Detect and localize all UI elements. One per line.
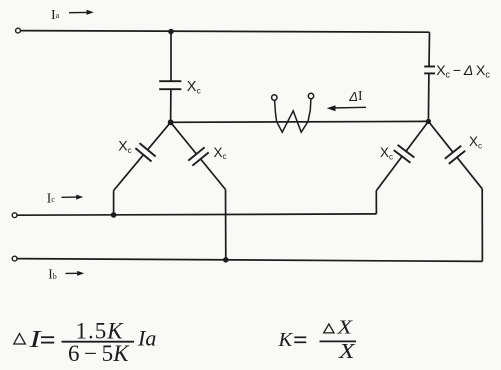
svg-text:6 − 5K: 6 − 5K [68,341,130,366]
arrow Ic [62,196,80,198]
wire: detector right lead [308,99,311,122]
node: junction on phase-b line [223,257,229,263]
fraction bar [62,341,135,343]
terminal: phase-a input [16,28,21,33]
node: right tent apex [426,119,431,124]
capacitor right tent left branch plates [398,145,415,158]
wire left tent left branch lower segment [114,155,144,191]
capacitor left tent left branch plates [140,143,156,156]
svg-text:Ib: Ib [48,267,57,282]
svg-text:Xc: Xc [214,145,227,161]
wire: middle horizontal (detector branch) [171,120,429,123]
svg-text:X: X [336,317,353,339]
wire right tent right branch upper segment [428,121,453,152]
svg-text:K: K [278,329,294,351]
wire left tent right branch upper segment [171,122,197,154]
triangle symbol (delta) [324,324,334,333]
wire: phase-c horizontal line [17,214,376,215]
arrow Ia [69,11,90,13]
fraction bar [320,340,357,342]
wire right tent left branch upper segment [406,121,428,151]
capacitor right tent right branch plates [445,146,461,159]
wire: phase-b horizontal line [17,259,483,262]
wire right tent right branch lower segment [457,157,482,189]
detector terminal left [272,95,277,100]
svg-text:Ia: Ia [137,326,156,351]
svg-text:ΔI: ΔI [348,88,363,104]
wire: detector left lead [275,100,277,121]
svg-text:Ia: Ia [51,8,60,23]
wire: capacitor Xc to left tent apex [170,89,172,122]
svg-text:I: I [28,327,42,353]
wire: vertical from top line to capacitor Xc [170,32,172,82]
node: left tent apex [168,119,174,125]
terminal: phase-c input [12,213,17,218]
wire: left tent left vertical [113,191,115,216]
wire: left tent right vertical (crosses Ic line) [225,190,227,260]
wire left tent left branch upper segment [148,122,171,150]
svg-text:X: X [338,339,356,363]
detector zigzag element [277,111,308,132]
wire: right tent left vertical [375,191,377,214]
wire: right vertical lower segment [427,73,430,121]
arrow Ib [66,272,81,274]
wire: right vertical upper segment [428,32,431,66]
terminal: phase-b input [12,256,17,261]
formula: dI = 1.5K/(6-5K) Ia [14,319,157,367]
svg-text:Ic: Ic [47,191,56,206]
capacitor Xc (top middle) plates [159,80,181,82]
svg-text:Xc: Xc [469,134,482,150]
capacitor left tent right branch plates [188,147,204,160]
formula: K = dX/X [278,317,357,363]
svg-text:Xc: Xc [187,79,202,95]
svg-text:Xc: Xc [118,138,131,155]
wire: phase-a top horizontal line [20,31,429,33]
svg-text:Xc: Xc [380,145,393,161]
detector terminal right [308,93,313,98]
svg-text:Xc − Δ Xc: Xc − Δ Xc [436,62,490,80]
arrow dI (pointing left) [331,106,366,109]
wire right tent left branch lower segment [376,156,402,190]
wire left tent right branch lower segment [201,159,226,190]
capacitor Xc-dXc plates [424,66,435,68]
svg-text:1.5K: 1.5K [76,319,125,344]
node: junction on top line [168,29,174,35]
wire: right tent right vertical [481,189,483,262]
triangle symbol (delta) [14,334,25,344]
node: junction on phase-c line [111,212,117,218]
